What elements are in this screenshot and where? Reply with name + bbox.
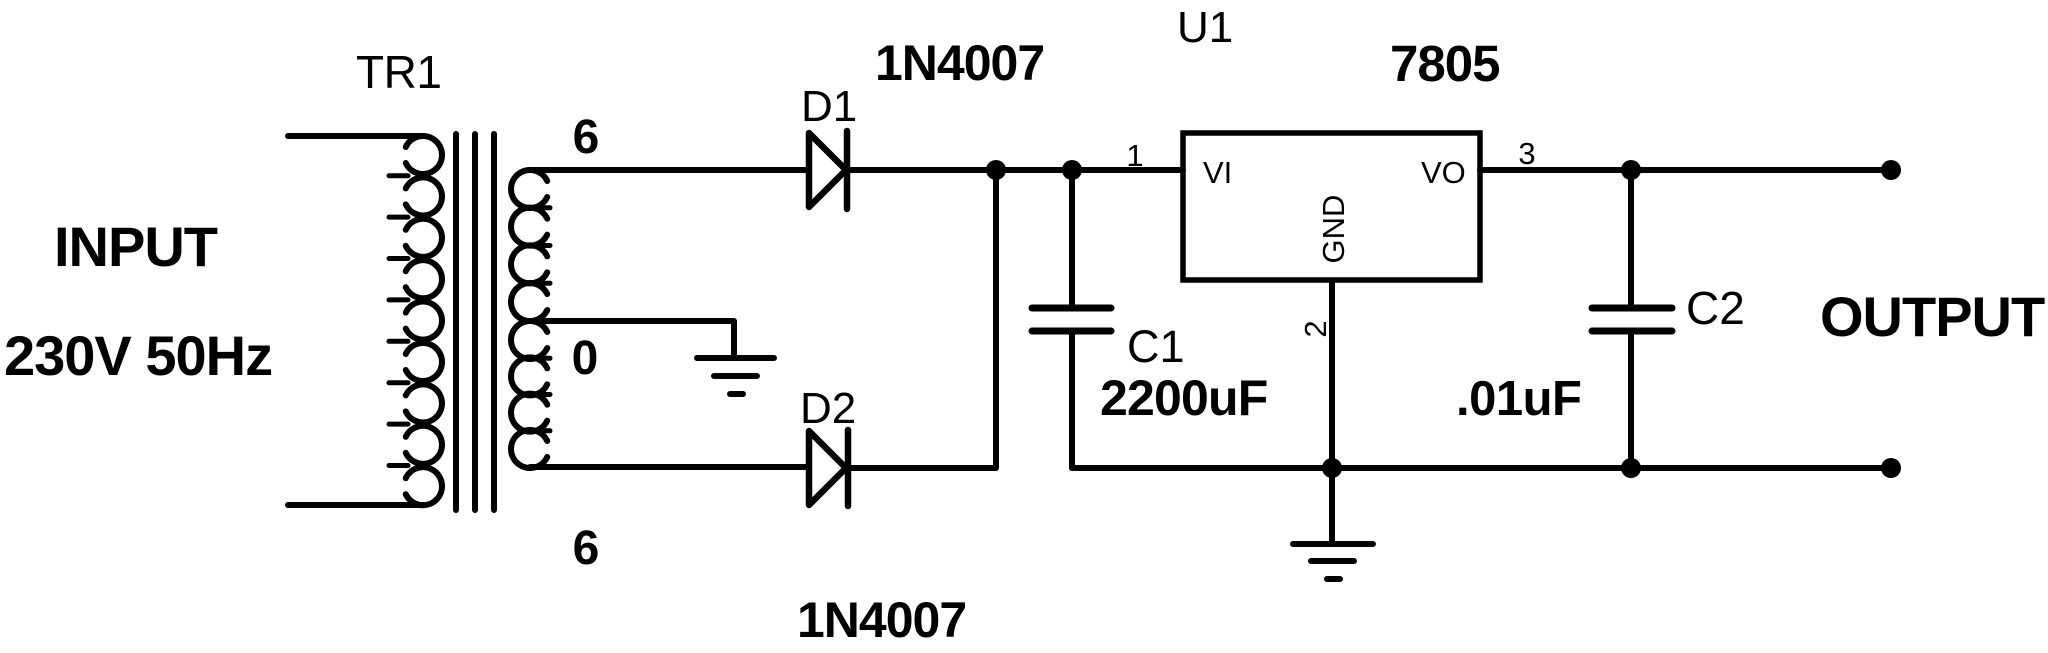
svg-text:TR1: TR1 — [356, 46, 441, 98]
svg-text:C1: C1 — [1127, 321, 1185, 372]
svg-text:0: 0 — [572, 332, 599, 385]
svg-text:INPUT: INPUT — [54, 215, 218, 278]
svg-text:2200uF: 2200uF — [1100, 370, 1268, 426]
svg-text:GND: GND — [1316, 195, 1351, 264]
svg-text:2: 2 — [1298, 320, 1333, 337]
svg-text:3: 3 — [1518, 136, 1535, 171]
svg-text:7805: 7805 — [1390, 35, 1499, 92]
svg-text:C2: C2 — [1686, 282, 1745, 334]
svg-text:.01uF: .01uF — [1456, 372, 1581, 426]
svg-text:1: 1 — [1126, 138, 1143, 173]
svg-text:U1: U1 — [1177, 3, 1233, 52]
svg-text:VI: VI — [1203, 155, 1232, 190]
svg-text:VO: VO — [1421, 155, 1466, 190]
svg-text:1N4007: 1N4007 — [797, 592, 966, 648]
svg-text:D1: D1 — [801, 82, 857, 131]
svg-text:1N4007: 1N4007 — [875, 35, 1044, 91]
svg-text:6: 6 — [573, 111, 600, 164]
svg-text:D2: D2 — [800, 384, 856, 433]
svg-text:6: 6 — [573, 522, 600, 575]
svg-text:OUTPUT: OUTPUT — [1820, 285, 2045, 348]
svg-text:230V 50Hz: 230V 50Hz — [4, 324, 272, 387]
